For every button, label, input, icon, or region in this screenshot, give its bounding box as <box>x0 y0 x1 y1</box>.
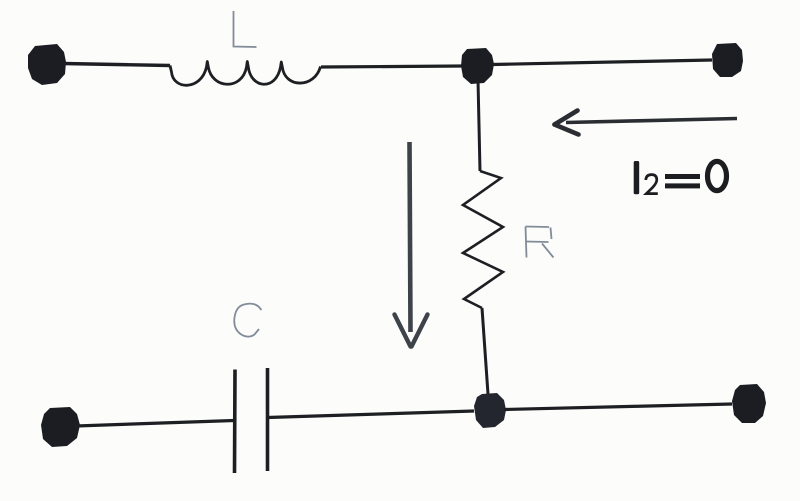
node bottom (junction) <box>474 393 506 428</box>
label C <box>234 304 261 337</box>
capacitor C plate left <box>233 370 237 474</box>
inductor L (4 bumps) <box>170 62 321 86</box>
wire: resistor to bottom node <box>482 308 488 394</box>
label R <box>526 227 554 258</box>
wire: bottom-left terminal to capacitor <box>76 421 234 427</box>
terminal dot bottom-right <box>732 384 766 423</box>
node top (junction) <box>461 48 494 84</box>
current arrow down (through R branch) <box>395 142 428 347</box>
wire: top node to top-right terminal <box>492 60 712 65</box>
wire: inductor to top node <box>321 66 463 67</box>
terminal dot top-left <box>28 44 66 85</box>
current arrow I2 (pointing left) <box>555 111 738 135</box>
label I2=0 <box>634 161 727 194</box>
capacitor C plate right <box>266 368 270 471</box>
wire: capacitor to bottom node <box>268 411 475 418</box>
terminal dot top-right <box>712 43 743 77</box>
wire: top-left terminal to inductor <box>63 64 170 66</box>
wire: bottom node to bottom-right terminal <box>504 404 732 410</box>
terminal dot bottom-left <box>41 407 80 447</box>
resistor R (zigzag) <box>463 171 503 308</box>
wire: top node down to resistor <box>478 80 480 171</box>
label L <box>234 11 257 47</box>
